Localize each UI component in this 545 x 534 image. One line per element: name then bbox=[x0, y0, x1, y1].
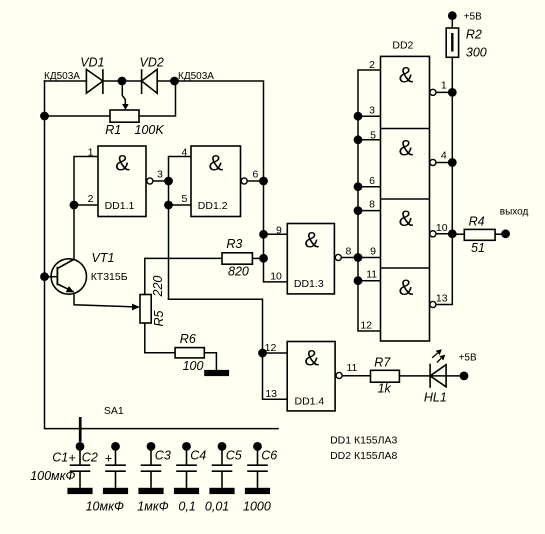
svg-text:C5: C5 bbox=[226, 449, 242, 463]
svg-text:6: 6 bbox=[253, 169, 259, 181]
svg-text:VT1: VT1 bbox=[92, 251, 115, 265]
svg-text:1: 1 bbox=[88, 146, 94, 158]
svg-text:&: & bbox=[399, 275, 414, 300]
svg-text:2: 2 bbox=[369, 59, 375, 71]
svg-text:100мкФ: 100мкФ bbox=[30, 469, 75, 483]
svg-text:DD2: DD2 bbox=[392, 40, 413, 52]
svg-text:КД503А: КД503А bbox=[44, 71, 80, 82]
svg-text:DD1.3: DD1.3 bbox=[294, 278, 324, 290]
svg-text:9: 9 bbox=[370, 246, 376, 258]
svg-text:SA1: SA1 bbox=[104, 405, 124, 417]
svg-text:&: & bbox=[115, 151, 130, 176]
svg-text:9: 9 bbox=[276, 225, 282, 237]
svg-text:КД503А: КД503А bbox=[178, 71, 214, 82]
svg-text:R7: R7 bbox=[374, 355, 391, 369]
svg-text:VD1: VD1 bbox=[80, 55, 104, 69]
svg-text:C3: C3 bbox=[155, 449, 171, 463]
svg-text:100K: 100K bbox=[135, 123, 165, 137]
svg-text:DD1.2: DD1.2 bbox=[198, 200, 228, 212]
svg-text:+5В: +5В bbox=[464, 12, 482, 23]
svg-text:&: & bbox=[304, 228, 319, 253]
svg-text:12: 12 bbox=[265, 342, 277, 354]
svg-text:10мкФ: 10мкФ bbox=[86, 499, 124, 513]
svg-text:3: 3 bbox=[369, 105, 375, 117]
svg-text:R6: R6 bbox=[180, 332, 196, 346]
svg-text:2: 2 bbox=[88, 193, 94, 205]
svg-text:&: & bbox=[399, 206, 414, 231]
svg-text:5: 5 bbox=[181, 193, 187, 205]
svg-text:13: 13 bbox=[436, 293, 448, 305]
svg-text:8: 8 bbox=[369, 199, 375, 211]
svg-text:DD2 К155ЛА8: DD2 К155ЛА8 bbox=[330, 450, 397, 462]
svg-text:R4: R4 bbox=[469, 214, 485, 228]
svg-text:+: + bbox=[68, 451, 75, 465]
svg-text:300: 300 bbox=[466, 46, 487, 60]
svg-text:1: 1 bbox=[441, 80, 447, 92]
svg-text:DD1 К155ЛА3: DD1 К155ЛА3 bbox=[330, 435, 397, 447]
svg-text:HL1: HL1 bbox=[424, 390, 447, 404]
svg-text:+: + bbox=[105, 451, 112, 465]
svg-text:C6: C6 bbox=[261, 449, 277, 463]
svg-text:КТ315Б: КТ315Б bbox=[91, 271, 128, 283]
svg-text:1000: 1000 bbox=[243, 499, 271, 513]
svg-text:13: 13 bbox=[265, 388, 277, 400]
svg-text:220: 220 bbox=[151, 276, 165, 298]
svg-text:0,01: 0,01 bbox=[205, 499, 229, 513]
svg-text:11: 11 bbox=[347, 362, 358, 374]
svg-text:11: 11 bbox=[366, 268, 377, 280]
svg-text:C4: C4 bbox=[190, 449, 206, 463]
svg-text:выход: выход bbox=[500, 207, 529, 218]
svg-text:10: 10 bbox=[436, 222, 448, 234]
svg-text:100: 100 bbox=[183, 359, 204, 373]
svg-text:4: 4 bbox=[441, 150, 447, 162]
svg-text:R1: R1 bbox=[105, 123, 121, 137]
svg-text:R5: R5 bbox=[152, 310, 166, 326]
svg-text:C2: C2 bbox=[82, 450, 98, 464]
svg-text:VD2: VD2 bbox=[140, 55, 164, 69]
svg-text:51: 51 bbox=[471, 241, 485, 255]
svg-text:5: 5 bbox=[370, 130, 376, 142]
svg-text:+5В: +5В bbox=[459, 353, 477, 364]
svg-text:4: 4 bbox=[181, 146, 187, 158]
svg-text:12: 12 bbox=[360, 320, 372, 332]
svg-text:1мкФ: 1мкФ bbox=[137, 499, 168, 513]
svg-text:DD1.1: DD1.1 bbox=[105, 200, 135, 212]
svg-text:10: 10 bbox=[270, 271, 282, 283]
svg-text:3: 3 bbox=[157, 169, 163, 181]
svg-text:&: & bbox=[304, 346, 319, 371]
svg-text:&: & bbox=[399, 63, 414, 88]
svg-text:820: 820 bbox=[228, 264, 249, 278]
svg-text:R3: R3 bbox=[226, 237, 242, 251]
svg-text:8: 8 bbox=[346, 246, 352, 258]
svg-text:1k: 1k bbox=[378, 382, 392, 396]
svg-text:C1: C1 bbox=[52, 450, 68, 464]
svg-text:&: & bbox=[208, 151, 223, 176]
svg-text:&: & bbox=[399, 135, 414, 160]
svg-text:DD1.4: DD1.4 bbox=[295, 396, 325, 408]
svg-text:6: 6 bbox=[369, 175, 375, 187]
svg-text:0,1: 0,1 bbox=[178, 499, 195, 513]
svg-text:R2: R2 bbox=[466, 28, 482, 42]
